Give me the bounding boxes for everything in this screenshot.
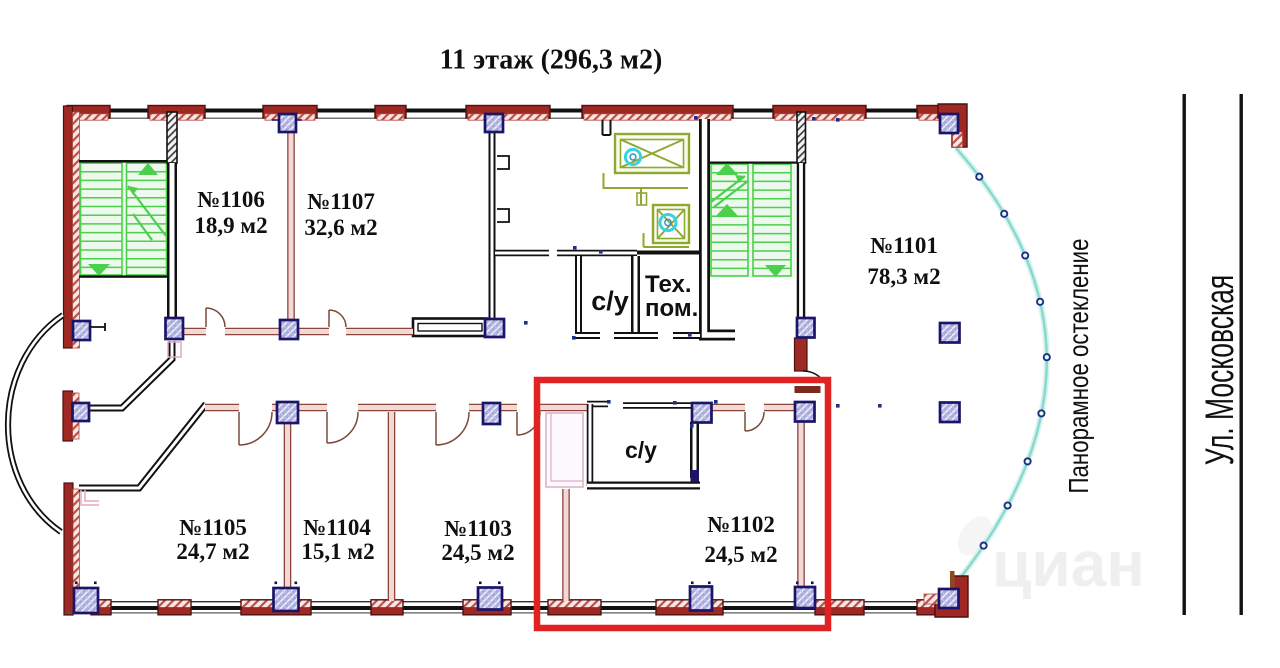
top wall red piers <box>67 106 110 119</box>
wc2 left wall <box>587 404 594 486</box>
stairs left bottom line <box>79 275 168 277</box>
svg-text:пом.: пом. <box>645 295 698 322</box>
bottom wall window line <box>77 601 940 602</box>
top-right corner wall <box>938 104 967 147</box>
column bottom 3 <box>690 587 712 611</box>
bottom wall outer thin line <box>66 612 967 613</box>
door room1107 <box>329 310 346 327</box>
elevator shaft lines <box>604 173 690 247</box>
svg-text:24,5 м2: 24,5 м2 <box>704 542 777 567</box>
door wc-area 1102 <box>517 412 540 435</box>
wall 1104-1103 divider <box>388 412 396 601</box>
column corridor c4 <box>485 319 504 337</box>
svg-text:№1102: №1102 <box>707 512 775 537</box>
door arc 1101 <box>803 371 829 397</box>
stairs left top line <box>79 160 168 163</box>
left wall lower segment <box>64 483 73 615</box>
wc2 bottom wall <box>587 482 700 490</box>
wall 1106-1107 divider <box>287 131 295 320</box>
radiator mark a <box>497 156 509 169</box>
column top B <box>485 114 503 132</box>
pink door jamb corridor <box>168 342 181 357</box>
balcony arc <box>8 315 63 532</box>
pink door jamb left-bottom <box>81 490 99 505</box>
svg-text:с/у: с/у <box>591 286 629 316</box>
column bottom 1 <box>274 588 299 611</box>
elevator small <box>653 205 689 243</box>
tick top A <box>272 119 302 121</box>
svg-text:№1103: №1103 <box>444 516 512 541</box>
door room1105 <box>239 412 272 445</box>
wall stairs1 right hatched <box>167 112 177 163</box>
door room1103 <box>436 412 469 445</box>
svg-text:№1105: №1105 <box>179 515 247 540</box>
wall room1101 left <box>797 163 806 318</box>
column bottom 2 <box>478 588 502 610</box>
top wall hatched sills <box>69 114 108 120</box>
wall room1107 right <box>489 132 496 321</box>
wall 1101 red stub <box>795 338 808 371</box>
wc1 left wall <box>575 256 582 336</box>
glazing arc light <box>956 148 1047 577</box>
left wall upper segment <box>64 106 73 348</box>
top wall inner thin line <box>66 118 940 119</box>
svg-text:24,5 м2: 24,5 м2 <box>441 540 514 565</box>
door room1106 <box>206 308 225 327</box>
corridor wall lower-left diagonal <box>79 404 206 488</box>
stairs left <box>80 161 168 277</box>
tick col1 <box>90 323 105 331</box>
left wall middle segment <box>63 391 73 441</box>
svg-text:№1107: №1107 <box>307 189 375 214</box>
column 1101 wall <box>797 318 815 338</box>
column free 1101 lower <box>940 403 960 423</box>
corridor wall upper-left diagonal <box>88 341 172 408</box>
watermark leaf <box>951 510 999 562</box>
duct pink rect <box>546 413 583 487</box>
wall elevators-stairs divider <box>705 119 736 335</box>
svg-text:24,7 м2: 24,7 м2 <box>176 539 249 564</box>
wall room1101 left hatched <box>797 112 806 163</box>
column corridor c3 <box>280 320 298 339</box>
wc2 right wall <box>690 422 699 478</box>
highlight rect 1102 <box>537 380 828 628</box>
door room1104 <box>327 412 358 443</box>
bottom-right corner wall <box>935 576 968 617</box>
column 1101 corridor <box>795 402 815 422</box>
svg-text:Тех.: Тех. <box>645 271 692 298</box>
street line left <box>1183 94 1186 615</box>
junction dots <box>573 246 577 250</box>
corridor bottom wall segs <box>205 404 239 412</box>
wc1-tech divider <box>631 256 640 336</box>
svg-text:32,6 м2: 32,6 м2 <box>304 215 377 240</box>
svg-text:Панорамное остекление: Панорамное остекление <box>1064 238 1095 493</box>
column lower wall a <box>277 402 298 423</box>
stairs right top line <box>707 162 797 164</box>
corridor top wall segs <box>183 328 206 336</box>
column left col3 <box>73 403 90 421</box>
elevator big <box>615 134 689 173</box>
duct mark top <box>603 120 611 135</box>
column bottom left corner <box>74 588 98 613</box>
wc1 bottom walls <box>575 332 600 339</box>
wc2 top wall <box>587 401 608 408</box>
lobby top wall <box>495 250 549 257</box>
svg-text:с/у: с/у <box>625 437 657 463</box>
svg-text:15,1 м2: 15,1 м2 <box>301 539 374 564</box>
svg-text:18,9 м2: 18,9 м2 <box>194 213 267 238</box>
svg-text:циан: циан <box>992 528 1145 600</box>
wall 1102 right <box>797 422 805 590</box>
glazing arc <box>956 148 1047 577</box>
column bottom 4 <box>795 587 815 608</box>
wall stairs1 right <box>167 163 177 320</box>
street line right <box>1240 94 1243 615</box>
svg-text:№1101: №1101 <box>870 233 938 258</box>
stairs right <box>710 163 795 277</box>
svg-text:11 этаж (296,3 м2): 11 этаж (296,3 м2) <box>440 45 663 76</box>
column free 1101 upper <box>940 323 960 343</box>
wall 1103-1102 divider <box>562 489 570 601</box>
svg-text:Ул. Московская: Ул. Московская <box>1198 275 1243 465</box>
top wall window line <box>66 109 940 113</box>
column wc2 corner <box>692 403 712 423</box>
lobby top wall right part <box>637 251 703 255</box>
door room1102 <box>745 412 764 431</box>
svg-text:№1106: №1106 <box>197 187 265 212</box>
bottom column ticks <box>275 582 278 585</box>
column corridor c2 <box>166 318 184 339</box>
wall 1105-1104 divider <box>284 424 292 599</box>
built-in rect room1107 <box>413 319 487 337</box>
svg-text:78,3 м2: 78,3 м2 <box>867 264 940 289</box>
radiator mark b <box>497 209 509 222</box>
column bottom right corner <box>939 589 959 608</box>
column left col1 <box>73 321 90 340</box>
column top A <box>279 114 296 132</box>
wc2 right wall blob <box>691 470 700 482</box>
svg-text:№1104: №1104 <box>303 515 371 540</box>
column lower wall b <box>483 403 500 424</box>
bottom wall red sills <box>91 600 111 607</box>
door leaf 1101 <box>795 386 821 393</box>
glazing arc markers <box>976 174 982 180</box>
column top corner <box>940 114 958 133</box>
